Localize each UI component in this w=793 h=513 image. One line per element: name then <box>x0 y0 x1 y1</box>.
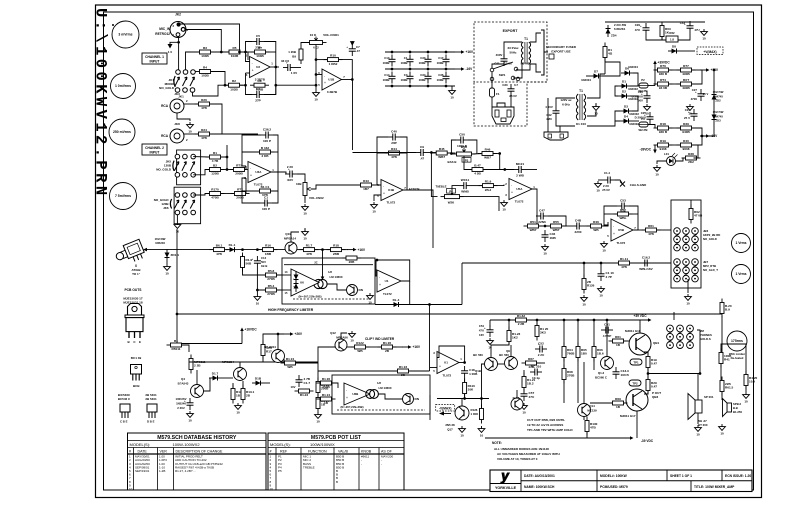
svg-text:Q4: Q4 <box>181 377 185 381</box>
wire JK6 to R170 <box>193 194 209 196</box>
svg-text:NOTE:: NOTE: <box>492 441 502 445</box>
wire U1B fb b <box>339 60 352 80</box>
svg-text:10: 10 <box>372 210 376 214</box>
wire U3A out <box>271 172 286 174</box>
resistor R56 <box>210 244 229 256</box>
resistor R46 <box>587 220 606 232</box>
transistor internal DN2 <box>403 394 420 405</box>
svg-text:ZD1.1: ZD1.1 <box>171 253 180 257</box>
junction <box>315 84 318 87</box>
net +26V llamp <box>284 332 303 336</box>
wire U4B fb a <box>377 137 388 185</box>
wire XLR to JK1 top <box>178 65 180 70</box>
w to qb3 base b <box>624 402 626 404</box>
title block <box>490 469 752 492</box>
svg-text:WBL/16V: WBL/16V <box>639 267 653 271</box>
wire U2 out <box>270 66 279 68</box>
junction <box>508 319 511 322</box>
svg-text:10: 10 <box>582 303 586 307</box>
resistor R170 <box>206 188 225 200</box>
svg-text:DL.1: DL.1 <box>229 243 236 247</box>
capacitor C30 <box>508 84 515 96</box>
capacitor C38 <box>285 167 297 178</box>
resistor RXT <box>677 78 696 90</box>
op-amp U7 <box>377 270 401 296</box>
svg-text:250B: 250B <box>322 385 330 389</box>
wire treble wiper up <box>452 186 459 195</box>
svg-text:+V(MAX): +V(MAX) <box>703 50 716 54</box>
w q5 up <box>239 362 241 367</box>
wire bus to patch box <box>652 262 671 264</box>
svg-text:10: 10 <box>744 400 748 404</box>
svg-text:KNOB: KNOB <box>361 450 372 454</box>
junction <box>409 85 412 88</box>
svg-text:C4B: C4B <box>575 218 582 222</box>
svg-text:DATE: DATE <box>138 450 148 454</box>
svg-text:1N5246: 1N5246 <box>155 241 165 245</box>
fuse F1 <box>490 88 500 97</box>
potentiometer TREBLE <box>441 191 464 199</box>
junction <box>647 372 650 375</box>
svg-text:25 V: 25 V <box>703 92 709 96</box>
wire to tone stage <box>353 152 417 154</box>
w x430 down <box>429 395 431 420</box>
svg-text:MODEL#: 100KW: MODEL#: 100KW <box>600 474 628 478</box>
svg-text:10: 10 <box>129 487 133 491</box>
w <box>296 362 318 364</box>
svg-text:W2K: W2K <box>448 201 455 205</box>
svg-text:C5: C5 <box>256 34 260 38</box>
svg-text:10: 10 <box>256 302 260 306</box>
wire LED to gnd <box>657 161 667 164</box>
svg-text:-39VDC: -39VDC <box>640 148 652 152</box>
ground ZD1 <box>164 264 171 276</box>
wire R4 to R2 <box>211 72 228 86</box>
svg-text:EXPORT: EXPORT <box>503 29 519 33</box>
resistor R65 <box>576 343 587 362</box>
capacitor C14 <box>389 72 396 84</box>
pcb connector glyph <box>549 54 554 59</box>
w <box>448 152 456 154</box>
svg-text:10: 10 <box>303 237 307 241</box>
jack JK9 speaker out <box>667 325 694 348</box>
svg-text:1N5246: 1N5246 <box>176 402 186 406</box>
transistor Q14 <box>578 404 591 417</box>
wire to gnd <box>256 290 258 294</box>
svg-text:R3: R3 <box>203 46 207 50</box>
svg-text:C1.4: C1.4 <box>604 171 610 175</box>
ground zener mid <box>687 104 694 116</box>
w <box>347 346 354 348</box>
wire XLR pin2 to R5 <box>181 24 240 52</box>
svg-text:WB: WB <box>593 228 599 232</box>
wire JK3 to R26 <box>184 103 198 105</box>
svg-text:R76: R76 <box>660 64 666 68</box>
svg-text:100B: 100B <box>401 78 408 82</box>
wire zd2-zd3 <box>713 103 715 111</box>
wire JK1 tip to R3 <box>186 52 200 70</box>
wire U4B fb d <box>400 152 407 154</box>
wire JK3 gnd <box>177 113 190 121</box>
limiter box 2 <box>332 375 430 414</box>
svg-text:10: 10 <box>460 434 464 438</box>
potentiometer BASS <box>453 148 476 156</box>
svg-text:R26: R26 <box>201 98 207 102</box>
wire to +16V <box>692 69 702 71</box>
svg-text:B1.250: B1.250 <box>733 410 742 414</box>
ground r420 <box>743 392 750 404</box>
capacitor C6 <box>283 61 295 72</box>
svg-text:VAL/B: VAL/B <box>338 450 349 454</box>
resistor R131 <box>241 385 255 404</box>
w <box>655 69 657 71</box>
resistor R38 <box>682 152 701 164</box>
ground r130 r131 <box>235 403 242 415</box>
wire U4B out to mix bus <box>403 190 433 248</box>
svg-text:R1 26: R1 26 <box>322 377 331 381</box>
ground C54 <box>487 338 494 350</box>
junction <box>224 84 227 87</box>
w r64-r68 <box>563 358 565 368</box>
ground under U4B <box>371 202 378 214</box>
capacitor C40 <box>388 129 400 145</box>
svg-text:270B: 270B <box>267 292 275 296</box>
w qb3 emitter <box>644 391 648 394</box>
resistor R62b <box>689 205 703 224</box>
svg-text:R51: R51 <box>530 220 536 224</box>
svg-text:C30: C30 <box>502 83 508 87</box>
svg-text:+16V: +16V <box>358 248 366 252</box>
op-amp U6 LM13600 <box>291 269 319 296</box>
svg-text:4 5B: 4 5B <box>474 172 481 176</box>
svg-text:BT 200: BT 200 <box>698 423 708 427</box>
svg-text:U5A: U5A <box>516 187 523 191</box>
diode D51 <box>294 271 299 283</box>
w r47 right <box>484 169 515 171</box>
svg-text:U6B: U6B <box>352 392 359 396</box>
svg-text:R1 24: R1 24 <box>322 393 331 397</box>
svg-text:2B 5401: 2B 5401 <box>145 397 157 401</box>
wire RT1 to U3A <box>245 166 246 170</box>
svg-text:1 6V: 1 6V <box>291 71 297 75</box>
svg-text:100W-100WX2: 100W-100WX2 <box>173 442 201 447</box>
resistor R161 <box>256 185 275 197</box>
svg-text:R77: R77 <box>683 64 689 68</box>
transformer T1 export <box>521 37 530 64</box>
wire Q11 emitter <box>297 249 303 251</box>
junction <box>583 262 586 265</box>
svg-text:SEP/19/01: SEP/19/01 <box>135 469 150 473</box>
resistor R60 <box>342 256 361 264</box>
net -39VDC rail2 <box>630 436 634 440</box>
resistor R125 <box>295 389 314 397</box>
svg-text:Q17: Q17 <box>447 428 453 432</box>
wire cap top to T1 <box>504 42 522 57</box>
svg-text:REF: REF <box>280 450 288 454</box>
capacitor C17 <box>443 55 450 67</box>
XLR connector JK2 <box>155 13 188 38</box>
resistor R121 <box>522 373 536 392</box>
svg-text:SW1: SW1 <box>499 73 506 77</box>
svg-text:+39 VDC: +39 VDC <box>633 314 647 318</box>
svg-text:GOLD.S: GOLD.S <box>700 337 711 341</box>
junction <box>226 168 229 171</box>
wire R24 to C36.2 <box>210 133 258 135</box>
svg-text:K1 X10: K1 X10 <box>576 122 586 126</box>
wire u7 out down <box>409 281 411 305</box>
transistor Q5 <box>234 368 247 381</box>
wire r620 down <box>721 316 723 352</box>
svg-text:0.47: 0.47 <box>651 385 657 389</box>
diode D17 <box>209 372 221 381</box>
wire C42 to T1 top <box>556 98 575 106</box>
jack JK8 amp in <box>674 259 699 282</box>
svg-text:33 C6: 33 C6 <box>281 59 289 63</box>
w <box>584 225 590 227</box>
resistor R51 <box>524 220 543 232</box>
junction <box>445 68 448 71</box>
w <box>562 225 572 227</box>
svg-text:BC560 C: BC560 C <box>595 376 608 380</box>
svg-text:R38: R38 <box>688 152 694 156</box>
resistor B2 <box>206 164 225 176</box>
svg-text:WBL: WBL <box>619 216 626 220</box>
diode D52 <box>294 280 299 292</box>
wire JK5 to R1 <box>193 156 209 158</box>
wire U1B out down <box>352 80 354 151</box>
level callout 1Vrms b <box>732 265 751 284</box>
junction <box>701 135 704 138</box>
svg-text:2200: 2200 <box>575 230 582 234</box>
wire u1 feedback <box>437 346 465 363</box>
svg-text:10: 10 <box>176 230 180 234</box>
svg-text:47B: 47B <box>648 232 654 236</box>
svg-text:R40: R40 <box>683 139 689 143</box>
junction <box>503 168 506 171</box>
transistor Q11 <box>285 242 297 254</box>
wire T1 sec to D7 <box>587 74 605 98</box>
net +16V mixbus <box>347 248 366 252</box>
wire R3-R5 <box>211 51 229 53</box>
svg-text:BC 210: BC 210 <box>531 364 542 368</box>
resistor R130a <box>585 417 598 436</box>
fuse P3 <box>638 117 648 132</box>
wire Iabc drop <box>322 250 324 278</box>
svg-text:R1.9: R1.9 <box>485 180 492 184</box>
svg-text:C53: C53 <box>620 198 626 202</box>
svg-text:10: 10 <box>502 208 506 212</box>
svg-text:TL072: TL072 <box>617 241 626 245</box>
junction <box>593 319 596 322</box>
resistor R35 <box>189 355 206 374</box>
svg-text:R1 23: R1 23 <box>399 365 408 369</box>
capacitor C37 <box>260 195 272 211</box>
resistor R7 <box>251 46 270 58</box>
svg-text:R43: R43 <box>363 179 369 183</box>
ground u7 <box>367 293 374 305</box>
resistor R18 <box>327 244 346 256</box>
svg-text:+: + <box>324 81 326 85</box>
svg-text:WB: WB <box>357 349 363 353</box>
transistor QB3 MJ21194 <box>620 389 661 418</box>
ground R114 <box>581 295 588 307</box>
svg-text:U3A: U3A <box>255 170 262 174</box>
svg-text:1N4004: 1N4004 <box>628 65 638 69</box>
svg-text:100B: 100B <box>383 78 390 82</box>
ground under JK6 <box>174 222 181 234</box>
svg-text:1B7: 1B7 <box>363 187 369 191</box>
net input arrow DL2 <box>143 248 147 252</box>
resistor R620 <box>720 299 732 318</box>
resistor R5 <box>225 46 244 58</box>
svg-text:C1: C1 <box>264 195 268 199</box>
capacitor C52 <box>535 341 547 357</box>
capacitor C13 <box>389 55 396 67</box>
svg-text:R1 26: R1 26 <box>383 341 392 345</box>
svg-text:10: 10 <box>655 173 659 177</box>
capacitor C48 <box>572 218 584 234</box>
w c21 right <box>526 169 537 171</box>
wire mix bus left <box>147 249 213 251</box>
svg-text:10: 10 <box>236 411 240 415</box>
wire R1 down <box>221 157 227 170</box>
svg-text:FUNCTION: FUNCTION <box>308 450 327 454</box>
svg-text:U4B: U4B <box>388 188 395 192</box>
svg-text:R61: R61 <box>615 335 621 339</box>
svg-text:R1.23: R1.23 <box>300 393 309 397</box>
svg-text:TO 1°: TO 1° <box>132 272 141 276</box>
w <box>283 359 285 363</box>
wire T1 to pins <box>513 64 522 78</box>
svg-text:+: + <box>251 257 253 261</box>
resistor R24 <box>195 128 214 140</box>
resistor R59 <box>241 253 253 272</box>
wire C6 out <box>295 67 301 69</box>
svg-text:QB1: QB1 <box>653 341 660 345</box>
diode D18 <box>252 377 264 386</box>
svg-text:1 20B: 1 20B <box>288 50 296 54</box>
svg-text:16V: 16V <box>479 333 484 337</box>
svg-text:10: 10 <box>702 37 706 41</box>
svg-text:W2-PB: W2-PB <box>638 128 647 132</box>
ground u5b <box>601 241 608 253</box>
resistor R9 <box>299 45 303 64</box>
capacitor C25 <box>644 112 654 124</box>
svg-text:D1B: D1B <box>255 377 262 381</box>
svg-text:47B: 47B <box>216 252 222 256</box>
svg-text:2 2U: 2 2U <box>538 353 545 357</box>
wire U2 fb top inline b <box>266 51 276 53</box>
w r66 down <box>593 358 595 370</box>
svg-text:TITLE: 100W MIXER_AMP: TITLE: 100W MIXER_AMP <box>694 485 735 489</box>
svg-text:C17: C17 <box>438 56 444 60</box>
svg-text:TL072: TL072 <box>383 292 392 296</box>
svg-text:2 2B: 2 2B <box>518 322 525 326</box>
w qb3 collector down <box>636 411 638 438</box>
capacitor C43 <box>684 21 694 33</box>
capacitor C27 <box>695 89 705 101</box>
svg-text:C26: C26 <box>638 90 644 94</box>
LM13600 B output circle <box>370 390 379 399</box>
resistor R19 <box>654 139 673 151</box>
svg-text:R44: R44 <box>391 147 397 151</box>
svg-text:C B E: C B E <box>120 420 128 424</box>
svg-text:EXPORT USE: EXPORT USE <box>551 50 570 54</box>
net +16V capbank <box>455 50 474 54</box>
svg-text:R41: R41 <box>724 358 730 362</box>
wire U3A fb bot b <box>242 190 259 192</box>
resistor R58 <box>262 269 281 281</box>
svg-text:6 0Hz: 6 0Hz <box>562 103 570 107</box>
junction <box>351 78 354 81</box>
ground sp001 <box>695 425 702 437</box>
svg-text:+26V: +26V <box>295 332 303 336</box>
resistor R62a <box>512 314 531 326</box>
wire R18-R39 <box>669 127 680 129</box>
svg-text:10: 10 <box>602 249 606 253</box>
svg-text:D7: D7 <box>594 70 598 74</box>
svg-text:VOL.CN02: VOL.CN02 <box>309 196 324 200</box>
ground q17 <box>459 426 466 438</box>
svg-text:9408: 9408 <box>660 147 667 151</box>
svg-text:TP1: TP1 <box>633 361 639 365</box>
svg-text:10: 10 <box>270 487 274 491</box>
svg-text:+: + <box>640 24 642 28</box>
wire U4B fb b <box>377 152 388 154</box>
wire +16 to zd2 <box>713 70 715 91</box>
junction <box>321 248 324 251</box>
secondary bracket <box>541 30 548 75</box>
svg-text:R10: R10 <box>330 54 336 58</box>
resistor R110 <box>463 379 476 398</box>
ground C110 <box>598 286 605 298</box>
wire row2 join <box>692 70 702 84</box>
wire U3A fb top c <box>271 135 278 172</box>
svg-text:R17: R17 <box>266 350 272 354</box>
svg-text:BC 560: BC 560 <box>499 353 509 357</box>
svg-text:10: 10 <box>314 98 318 102</box>
svg-text:22N6: 22N6 <box>538 220 546 224</box>
svg-text:10: 10 <box>686 302 690 306</box>
resistor R120 <box>535 322 549 341</box>
wire U1B -in <box>316 74 322 76</box>
resistor R61a <box>609 335 628 347</box>
svg-text:C3: C3 <box>404 73 408 77</box>
w q17 up <box>461 399 463 407</box>
wire d2-d3 <box>630 96 638 111</box>
svg-text:LM 13600: LM 13600 <box>329 275 342 279</box>
speaker SPK2 <box>723 399 743 417</box>
dashed internal link 2 <box>337 409 425 411</box>
ground transformer center tap <box>593 104 600 116</box>
wire box to u7 <box>375 275 377 277</box>
level callout 175rms <box>727 331 747 351</box>
svg-text:De-feated: De-feated <box>731 356 744 360</box>
zener ZD3 <box>712 111 717 123</box>
resistor R10 <box>324 54 343 66</box>
svg-text:-: - <box>250 167 251 171</box>
ground C57 <box>521 403 528 415</box>
svg-text:y: y <box>500 469 510 484</box>
ground LED <box>654 165 661 177</box>
capacitor C34 <box>425 72 432 84</box>
w <box>629 213 638 215</box>
svg-text:940 B: 940 B <box>659 130 668 134</box>
wire U2 fb top c <box>246 42 253 53</box>
svg-text:1K2: 1K2 <box>512 336 518 340</box>
svg-text:P2: P2 <box>641 78 645 82</box>
svg-text:+16V: +16V <box>413 345 421 349</box>
